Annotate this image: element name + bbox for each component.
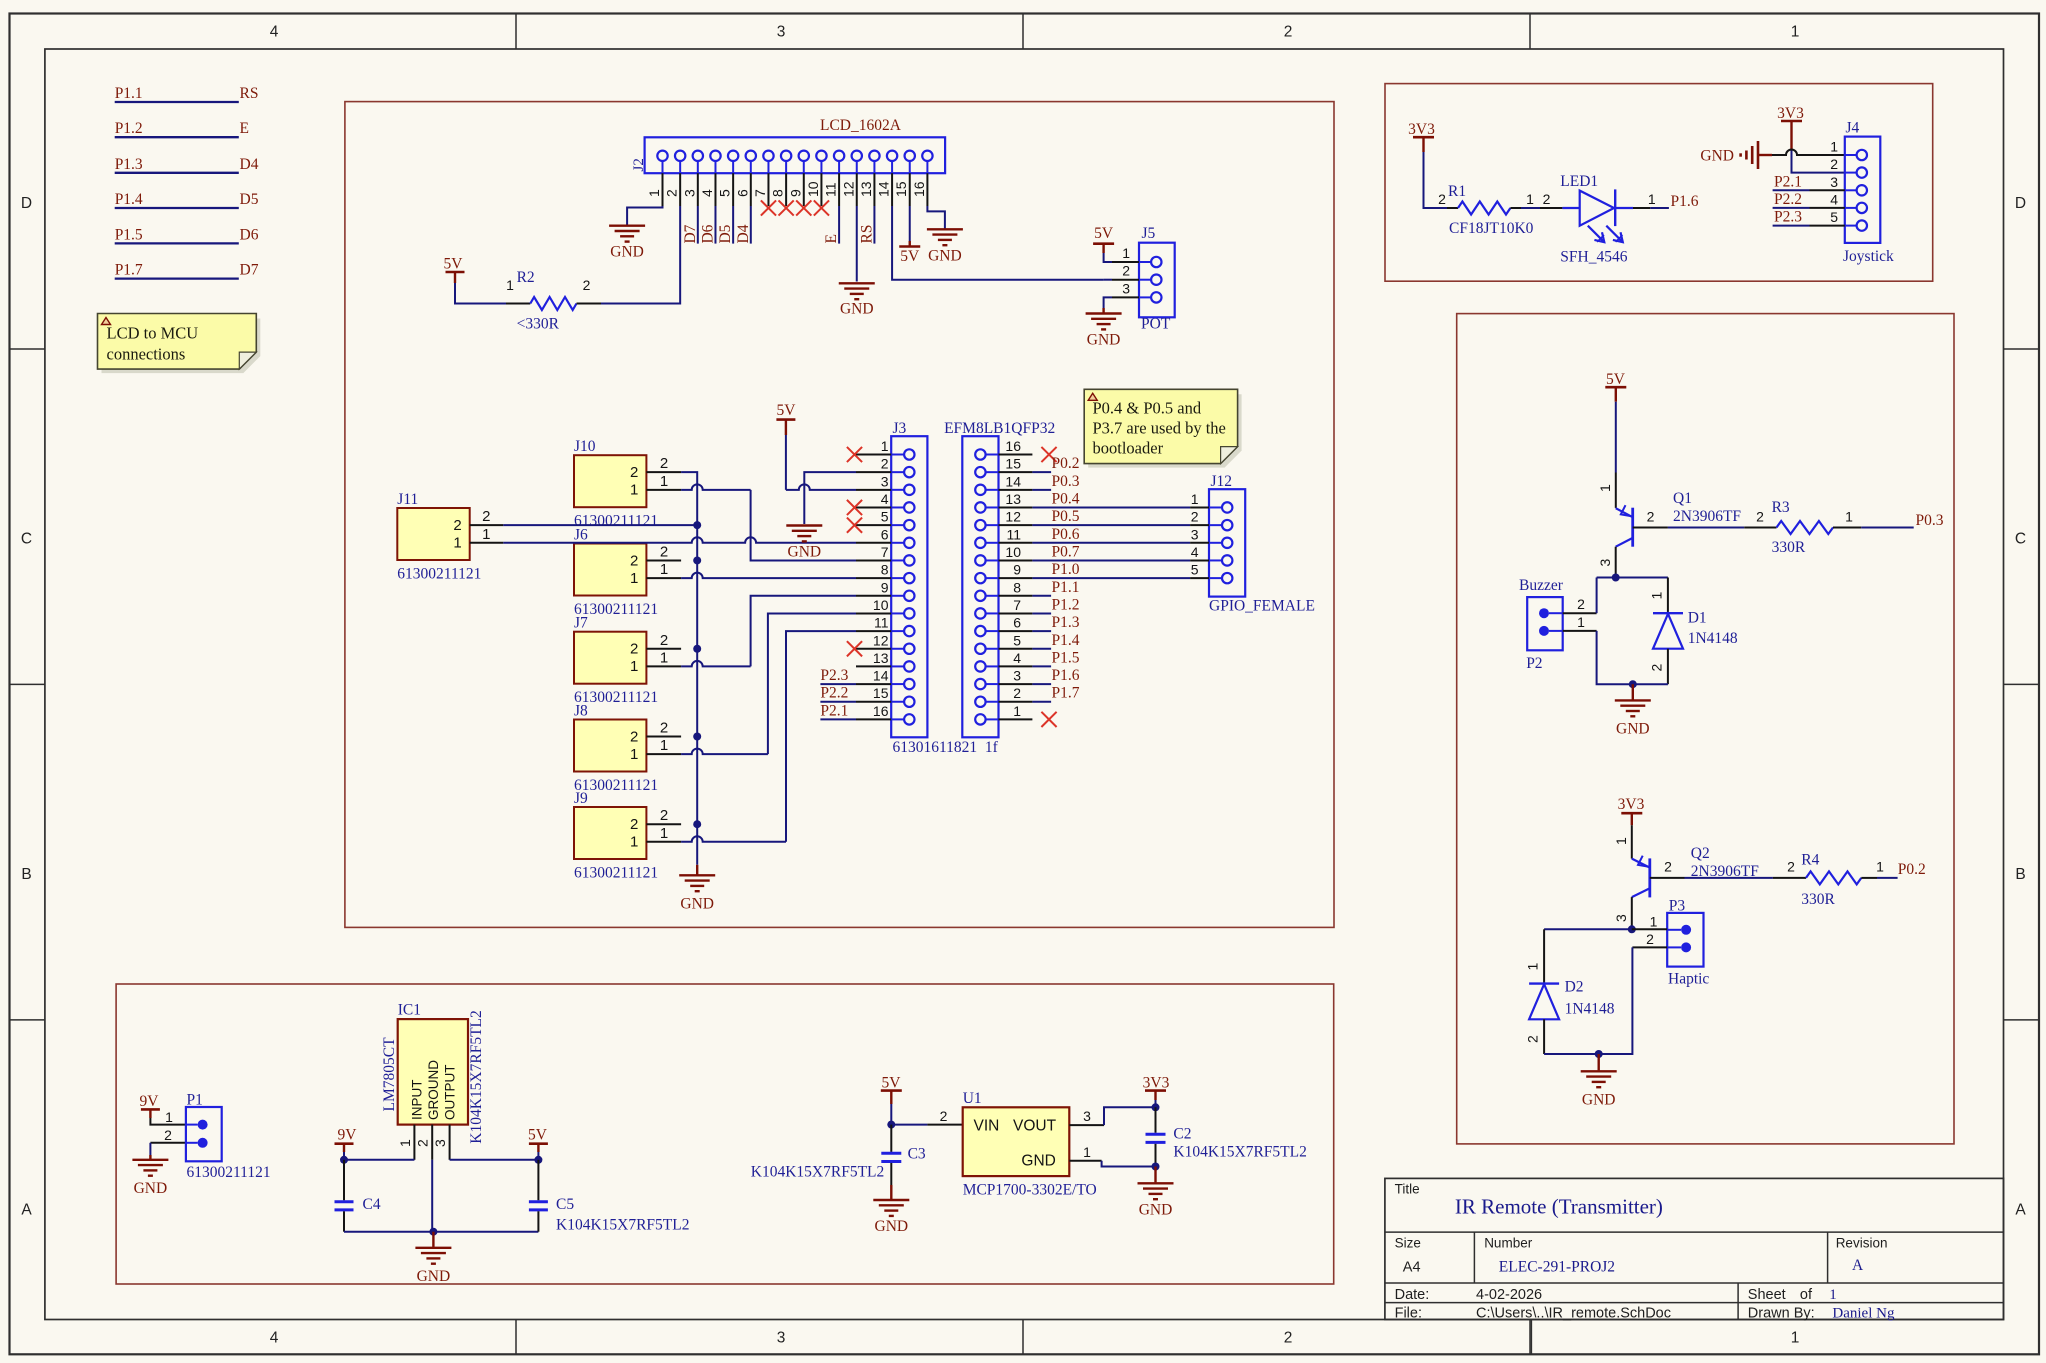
svg-text:2: 2 [630, 816, 638, 833]
P3 pin1 stub [1632, 928, 1667, 930]
svg-text:2: 2 [940, 1108, 948, 1124]
svg-text:GND: GND [1087, 332, 1121, 349]
net tie P1.7-D7 [115, 277, 239, 279]
power 5V on J2 pin15 [909, 206, 911, 241]
J2 pin14 wire to J5 pot [892, 206, 1104, 280]
svg-text:VIN: VIN [974, 1118, 1000, 1135]
svg-text:1: 1 [630, 570, 638, 587]
svg-text:GND: GND [417, 1268, 451, 1285]
svg-text:EFM8LB1QFP32: EFM8LB1QFP32 [944, 420, 1055, 437]
svg-text:P1.4: P1.4 [1052, 632, 1080, 649]
P1 pin2 wire to GND [150, 1142, 186, 1144]
svg-text:2: 2 [1577, 596, 1585, 612]
svg-text:13: 13 [858, 181, 874, 197]
no-connect X on EFM8 pins 16 and 1 [1041, 447, 1056, 462]
svg-text:15: 15 [893, 181, 909, 197]
svg-text:GND: GND [610, 244, 644, 261]
svg-text:<330R: <330R [517, 316, 560, 333]
svg-text:10: 10 [1005, 544, 1021, 560]
P2 pin1 wire to gnd rail [1563, 630, 1597, 632]
svg-text:5V: 5V [1094, 225, 1114, 242]
svg-text:2: 2 [1756, 509, 1764, 525]
svg-text:INPUT: INPUT [410, 1080, 425, 1121]
svg-text:LCD_1602A: LCD_1602A [820, 117, 902, 134]
svg-text:D: D [2015, 195, 2026, 212]
ground for J3 pin2 [786, 524, 822, 526]
svg-text:J5: J5 [1142, 225, 1156, 242]
svg-text:J8: J8 [574, 703, 588, 720]
connector J2 LCD_1602A [645, 137, 946, 173]
svg-text:1: 1 [1791, 1330, 1800, 1347]
svg-text:12: 12 [1005, 509, 1021, 525]
net label P1.6 on EFM8 row [1032, 683, 1051, 685]
svg-text:2: 2 [630, 728, 638, 745]
svg-text:2: 2 [630, 464, 638, 481]
wire J11 pin1 to J3 pin6 [503, 537, 856, 543]
svg-text:GND: GND [928, 247, 962, 264]
svg-text:MCP1700-3302E/TO: MCP1700-3302E/TO [963, 1182, 1097, 1199]
wire 5V to U1 VIN [891, 1124, 927, 1126]
svg-text:1: 1 [630, 746, 638, 763]
net tie P1.1-RS [115, 101, 239, 103]
connector J4 Joystick [1845, 137, 1881, 243]
svg-text:330R: 330R [1801, 891, 1835, 908]
svg-text:8: 8 [1013, 579, 1021, 595]
svg-text:P1.7: P1.7 [1052, 685, 1080, 702]
svg-text:IR Remote (Transmitter): IR Remote (Transmitter) [1455, 1195, 1663, 1219]
svg-text:Size: Size [1395, 1236, 1421, 1251]
transistor Q2 2N3906TF [1632, 859, 1650, 868]
svg-text:Haptic: Haptic [1668, 971, 1709, 988]
svg-text:2: 2 [630, 641, 638, 658]
header J6 61300211121 [574, 544, 646, 596]
svg-text:GND: GND [788, 544, 822, 561]
svg-text:1: 1 [506, 277, 514, 293]
svg-text:ELEC-291-PROJ2: ELEC-291-PROJ2 [1499, 1259, 1615, 1276]
svg-text:C: C [2015, 531, 2026, 548]
svg-text:1: 1 [1122, 245, 1130, 261]
wire IC1 pin3 to 5V [450, 1159, 539, 1161]
svg-text:5V: 5V [444, 256, 464, 273]
svg-text:P1.4: P1.4 [115, 191, 143, 208]
svg-text:3: 3 [681, 189, 697, 197]
svg-text:5: 5 [1013, 632, 1021, 648]
svg-text:P2.2: P2.2 [820, 685, 848, 702]
svg-text:D: D [21, 195, 32, 212]
net label P2.2 on J4 pin 4 [1810, 207, 1845, 209]
svg-text:5V: 5V [900, 248, 920, 265]
svg-text:J3: J3 [893, 420, 907, 437]
svg-text:9: 9 [787, 189, 803, 197]
svg-text:E: E [823, 234, 840, 243]
svg-text:RS: RS [240, 85, 259, 102]
svg-text:2: 2 [1525, 1035, 1541, 1043]
svg-text:14: 14 [1005, 473, 1021, 489]
svg-text:330R: 330R [1772, 539, 1806, 556]
svg-text:E: E [240, 120, 249, 137]
svg-text:2: 2 [1284, 24, 1293, 41]
title block [1385, 1178, 2004, 1319]
svg-text:P2.3: P2.3 [820, 667, 848, 684]
svg-text:61300211121: 61300211121 [397, 566, 481, 583]
svg-text:P1.5: P1.5 [1052, 649, 1080, 666]
svg-text:1: 1 [630, 834, 638, 851]
net label P0.5 on EFM8 row [1032, 524, 1190, 526]
svg-text:P0.5: P0.5 [1052, 508, 1080, 525]
svg-text:2: 2 [1284, 1330, 1293, 1347]
svg-text:P0.4: P0.4 [1052, 490, 1080, 507]
svg-text:P0.3: P0.3 [1052, 473, 1080, 490]
wire J8 pin1 riser to J3 pin10 [681, 749, 768, 755]
svg-text:2: 2 [1647, 509, 1655, 525]
svg-text:3: 3 [432, 1139, 448, 1147]
svg-text:2: 2 [660, 720, 668, 737]
svg-text:1: 1 [1648, 191, 1656, 207]
net label P1.4 on EFM8 row [1032, 648, 1051, 650]
svg-text:D5: D5 [240, 191, 259, 208]
net label P1.3 on EFM8 row [1032, 630, 1051, 632]
svg-text:LM7805CT: LM7805CT [381, 1037, 398, 1112]
svg-text:11: 11 [874, 615, 889, 631]
svg-text:P2: P2 [1526, 655, 1542, 672]
svg-text:D4: D4 [735, 224, 752, 243]
svg-text:5: 5 [1830, 209, 1838, 225]
svg-text:P1.0: P1.0 [1052, 561, 1080, 578]
svg-text:OUTPUT: OUTPUT [443, 1065, 458, 1121]
svg-text:A: A [1852, 1257, 1864, 1274]
P3 pin2 wire to gnd rail [1632, 946, 1667, 948]
svg-text:6: 6 [1013, 615, 1021, 631]
svg-text:2: 2 [1438, 191, 1446, 207]
svg-text:D5: D5 [717, 224, 734, 243]
svg-text:3: 3 [1191, 526, 1199, 542]
capacitor C5 K104K15X7RF5TL2 [537, 1160, 539, 1201]
svg-text:1: 1 [397, 1139, 413, 1147]
svg-text:1: 1 [630, 482, 638, 499]
ground for J2 pin16 [927, 228, 963, 230]
svg-text:1: 1 [1791, 24, 1800, 41]
border row ticks [10, 348, 45, 350]
svg-text:1: 1 [1649, 592, 1665, 600]
connector EFM8LB1QFP32 [962, 436, 998, 737]
svg-text:C: C [21, 531, 32, 548]
resistor R1 CF18JT10K0 [1447, 207, 1458, 209]
J2 pin12 wire to GND [856, 206, 858, 282]
connector J3 61301611821 [891, 436, 927, 737]
J5 pin1 to 5V [1104, 253, 1112, 262]
svg-text:3: 3 [777, 1330, 786, 1347]
svg-text:3: 3 [1122, 280, 1130, 296]
svg-text:P1.1: P1.1 [1052, 579, 1080, 596]
svg-text:VOUT: VOUT [1013, 1118, 1057, 1135]
LED1 SFH_4546 [1540, 207, 1562, 209]
svg-text:GND: GND [1700, 148, 1734, 165]
svg-text:P0.6: P0.6 [1052, 526, 1080, 543]
ground for J2 pin12 [839, 282, 875, 284]
svg-text:Revision: Revision [1836, 1236, 1888, 1251]
svg-text:2: 2 [1543, 191, 1551, 207]
svg-text:GROUND: GROUND [426, 1060, 441, 1120]
header J8 61300211121 [574, 720, 646, 772]
svg-text:P1.2: P1.2 [115, 120, 143, 137]
svg-text:LCD to MCU: LCD to MCU [107, 324, 199, 343]
junction dots on trunk [693, 521, 701, 529]
transistor Q1 2N3906TF [1615, 473, 1617, 508]
svg-text:9V: 9V [140, 1093, 160, 1110]
svg-text:J6: J6 [574, 527, 588, 544]
svg-text:C:\Users\..\IR_remote.SchDoc: C:\Users\..\IR_remote.SchDoc [1476, 1306, 1671, 1322]
svg-text:bootloader: bootloader [1093, 439, 1164, 458]
wire J7 pin1 riser to J3 pin9 [681, 661, 751, 667]
svg-text:8: 8 [881, 562, 889, 578]
header J10 61300211121 [574, 455, 646, 507]
svg-text:1: 1 [1829, 1287, 1837, 1303]
note LCD to MCU connections [102, 319, 261, 374]
svg-text:R1: R1 [1448, 183, 1466, 200]
svg-text:RS: RS [858, 225, 875, 244]
svg-text:K104K15X7RF5TL2: K104K15X7RF5TL2 [1173, 1144, 1306, 1161]
svg-text:1: 1 [881, 438, 889, 454]
svg-text:11: 11 [1006, 526, 1021, 542]
connector J12 GPIO_FEMALE [1209, 489, 1245, 596]
svg-text:3: 3 [777, 24, 786, 41]
svg-text:3: 3 [1597, 559, 1613, 567]
net label P0.6 on EFM8 row [1032, 542, 1190, 544]
svg-text:2: 2 [660, 632, 668, 649]
net label P0.7 on EFM8 row [1032, 559, 1190, 561]
svg-text:1: 1 [1830, 139, 1838, 155]
svg-text:1: 1 [165, 1109, 173, 1125]
ground for C2 [1138, 1182, 1174, 1184]
net label P0.2 on EFM8 row [1032, 471, 1051, 473]
svg-text:11: 11 [823, 182, 839, 197]
svg-text:Daniel Ng: Daniel Ng [1832, 1306, 1895, 1322]
svg-text:16: 16 [911, 181, 927, 197]
svg-text:2: 2 [1787, 859, 1795, 875]
svg-text:B: B [21, 866, 31, 883]
svg-text:3: 3 [1083, 1108, 1091, 1124]
net tie P1.5-D6 [115, 242, 239, 244]
svg-text:D4: D4 [240, 156, 259, 173]
svg-text:6: 6 [734, 189, 750, 197]
svg-text:4: 4 [270, 1330, 279, 1347]
svg-text:1: 1 [646, 189, 662, 197]
svg-text:P0.7: P0.7 [1052, 543, 1080, 560]
svg-text:J11: J11 [397, 491, 418, 508]
svg-text:D7: D7 [240, 262, 259, 279]
net tie P1.4-D5 [115, 207, 239, 209]
capacitor C3 K104K15X7RF5TL2 [890, 1125, 892, 1152]
Q2 base wire to R4 [1650, 877, 1685, 879]
svg-text:A4: A4 [1403, 1260, 1421, 1276]
svg-text:61300211121: 61300211121 [187, 1164, 271, 1181]
Q1 base wire to R3 [1633, 527, 1668, 529]
svg-text:P2.2: P2.2 [1774, 191, 1802, 208]
ground for haptic circuit [1581, 1070, 1617, 1072]
net label P2.3 on J3 pin 14 [820, 683, 856, 685]
region box LED-joystick [1385, 84, 1933, 282]
svg-text:2: 2 [660, 807, 668, 824]
svg-text:GND: GND [1616, 720, 1650, 737]
svg-text:2: 2 [1649, 664, 1665, 672]
svg-text:J7: J7 [574, 615, 588, 632]
gnd rail under D2 [1544, 1053, 1599, 1055]
net label P1.5 on EFM8 row [1032, 665, 1051, 667]
svg-text:5V: 5V [1606, 371, 1626, 388]
resistor R4 330R [1773, 877, 1806, 879]
svg-text:Q1: Q1 [1673, 490, 1692, 507]
svg-text:C4: C4 [363, 1196, 381, 1213]
svg-text:2: 2 [415, 1139, 431, 1147]
svg-text:1: 1 [660, 737, 668, 754]
svg-text:K104K15X7RF5TL2: K104K15X7RF5TL2 [751, 1164, 884, 1181]
no-connect X on J2 pins 7-10 [761, 200, 776, 215]
net label P2.2 on J3 pin 15 [820, 701, 856, 703]
svg-text:16: 16 [1005, 438, 1021, 454]
svg-text:1: 1 [660, 473, 668, 490]
trunk wire from J10 pin2 to GND [681, 472, 697, 865]
net tie P1.3-D4 [115, 172, 239, 174]
Q1 collector junction [1612, 574, 1620, 582]
svg-text:8: 8 [770, 189, 786, 197]
svg-text:14: 14 [876, 181, 892, 197]
wire J11 pin2 to trunk [503, 524, 697, 526]
svg-text:4-02-2026: 4-02-2026 [1476, 1287, 1542, 1303]
LED1 emission arrows [1588, 226, 1605, 243]
svg-text:GPIO_FEMALE: GPIO_FEMALE [1209, 598, 1315, 615]
svg-text:1: 1 [453, 535, 461, 552]
svg-text:2: 2 [881, 456, 889, 472]
wires D7 D6 D5 D4 on J2 pins 3-6 [697, 206, 699, 244]
svg-text:9V: 9V [338, 1127, 358, 1144]
wire gnd to J4 pin1 hopping 3V3 [1772, 150, 1845, 155]
resistor R2 <330R [506, 303, 530, 305]
svg-text:1: 1 [1525, 963, 1541, 971]
gnd rail under D1 [1633, 683, 1668, 685]
svg-text:P1.6: P1.6 [1671, 193, 1699, 210]
svg-text:1: 1 [630, 658, 638, 675]
svg-text:GND: GND [875, 1218, 909, 1235]
svg-text:SFH_4546: SFH_4546 [1560, 249, 1627, 266]
svg-text:GND: GND [1582, 1091, 1616, 1108]
svg-text:Title: Title [1395, 1182, 1420, 1197]
svg-text:3: 3 [1830, 174, 1838, 190]
svg-text:3: 3 [881, 473, 889, 489]
J2 pin2 wire to R2 [601, 206, 680, 304]
svg-text:4: 4 [881, 491, 889, 507]
svg-text:10: 10 [873, 597, 889, 613]
svg-text:P2.3: P2.3 [1774, 209, 1802, 226]
svg-text:15: 15 [873, 685, 889, 701]
svg-text:Number: Number [1484, 1236, 1533, 1251]
ground for buzzer circuit [1615, 699, 1651, 701]
svg-text:Drawn By:: Drawn By: [1748, 1306, 1815, 1322]
svg-text:12: 12 [873, 632, 889, 648]
J3 pin2 wire to GND [804, 472, 856, 524]
svg-text:K104K15X7RF5TL2: K104K15X7RF5TL2 [468, 1010, 485, 1143]
header J11 61300211121 [397, 508, 469, 560]
header J9 61300211121 [574, 807, 646, 859]
svg-text:P1.3: P1.3 [1052, 614, 1080, 631]
svg-text:P0.2: P0.2 [1898, 861, 1926, 878]
net tie P1.2-E [115, 136, 239, 138]
svg-text:1: 1 [1876, 859, 1884, 875]
svg-text:J2: J2 [631, 158, 647, 171]
J2 pin stubs [662, 173, 664, 206]
svg-text:J10: J10 [574, 438, 596, 455]
svg-text:B: B [2015, 866, 2025, 883]
net label P2.1 on J3 pin 16 [820, 718, 856, 720]
svg-text:1: 1 [660, 561, 668, 578]
diode D1 1N4148 [1667, 578, 1669, 614]
svg-text:LED1: LED1 [1560, 173, 1598, 190]
border column ticks [515, 14, 517, 50]
svg-text:P1.5: P1.5 [115, 226, 143, 243]
svg-text:Joystick: Joystick [1843, 248, 1894, 265]
svg-text:R2: R2 [517, 269, 535, 286]
svg-text:2: 2 [453, 517, 461, 534]
svg-text:4: 4 [1191, 544, 1199, 560]
svg-text:7: 7 [752, 189, 768, 197]
wire 9V to IC1 pin1 [344, 1159, 414, 1161]
diode D2 1N4148 [1543, 929, 1545, 983]
svg-text:2: 2 [1122, 263, 1130, 279]
svg-text:D7: D7 [682, 224, 699, 243]
svg-text:1: 1 [1845, 509, 1853, 525]
svg-text:2: 2 [660, 543, 668, 560]
Q2 collector junction [1628, 925, 1636, 933]
svg-text:61300211121: 61300211121 [574, 865, 658, 882]
net label P0.3 on EFM8 row [1032, 489, 1051, 491]
U1 VOUT wire to 3V3 [1069, 1124, 1104, 1126]
svg-text:9: 9 [1013, 562, 1021, 578]
svg-text:P0.3: P0.3 [1916, 512, 1944, 529]
svg-text:D6: D6 [240, 226, 259, 243]
svg-text:4: 4 [699, 189, 715, 197]
svg-text:A: A [2015, 1202, 2026, 1219]
svg-text:4: 4 [1013, 650, 1021, 666]
svg-text:5: 5 [881, 509, 889, 525]
svg-text:Sheet: Sheet [1748, 1287, 1786, 1303]
ground for J5 pin3 [1086, 312, 1122, 314]
ground for J2 pin1 [609, 224, 645, 226]
svg-text:A: A [21, 1202, 32, 1219]
svg-text:2: 2 [1013, 685, 1021, 701]
svg-text:12: 12 [840, 181, 856, 197]
svg-text:2N3906TF: 2N3906TF [1673, 508, 1741, 525]
svg-text:IC1: IC1 [398, 1002, 421, 1019]
svg-text:C5: C5 [556, 1196, 574, 1213]
wire J10 pin1 to trunk B [681, 484, 751, 489]
svg-text:1: 1 [1013, 703, 1021, 719]
wire RS on J2 pin 13 [873, 206, 875, 244]
svg-text:Q2: Q2 [1691, 845, 1710, 862]
svg-text:2: 2 [1191, 509, 1199, 525]
svg-text:GND: GND [1021, 1152, 1055, 1169]
ground for IC1 [415, 1247, 451, 1249]
net label P2.3 on J4 pin 5 [1810, 225, 1845, 227]
svg-text:9: 9 [881, 579, 889, 595]
svg-text:U1: U1 [963, 1090, 982, 1107]
svg-text:GND: GND [840, 300, 874, 317]
svg-text:15: 15 [1005, 456, 1021, 472]
wire J6 pin1 to J3 pin8 [681, 573, 856, 579]
svg-text:1: 1 [1650, 914, 1658, 930]
J5 pin2 wire [1104, 279, 1112, 281]
svg-text:Date:: Date: [1395, 1287, 1430, 1303]
wire J9 pin1 riser to J3 pin11 [681, 836, 786, 841]
svg-text:2: 2 [482, 508, 490, 525]
